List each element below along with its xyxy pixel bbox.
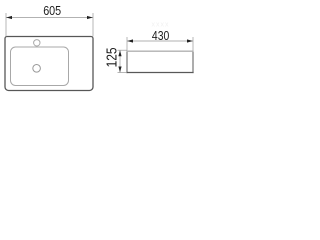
plan view outer rim — [5, 37, 93, 91]
dim 605 line — [6, 17, 93, 19]
svg-text:430: 430 — [152, 28, 169, 43]
plan view inner bowl — [11, 47, 69, 86]
dim 125 arrow down — [118, 67, 121, 73]
dim 605 extension line right — [92, 13, 94, 37]
dim 605 extension line left — [5, 13, 7, 37]
dim 430 arrow right — [187, 39, 193, 42]
side view right edge — [192, 51, 194, 74]
dim 125 extension tick bottom — [118, 72, 128, 74]
svg-text:605: 605 — [43, 3, 61, 18]
dim 430 extension line left — [126, 37, 128, 51]
dim 605 arrow right — [87, 16, 93, 19]
svg-text:125: 125 — [105, 47, 121, 67]
dim 430 arrow left — [127, 39, 133, 42]
dim 605 arrow left — [6, 16, 12, 19]
side view left edge — [126, 51, 128, 74]
dim 125 arrow up — [118, 50, 121, 56]
dim 430 extension line right — [192, 37, 194, 51]
drain hole — [33, 65, 41, 73]
side view bottom edge — [126, 72, 193, 74]
side view top edge — [127, 50, 194, 52]
dim 430 line — [127, 40, 193, 42]
dim 125 line — [119, 50, 121, 72]
faucet hole — [34, 40, 40, 46]
dim 125 extension tick top — [118, 49, 128, 51]
